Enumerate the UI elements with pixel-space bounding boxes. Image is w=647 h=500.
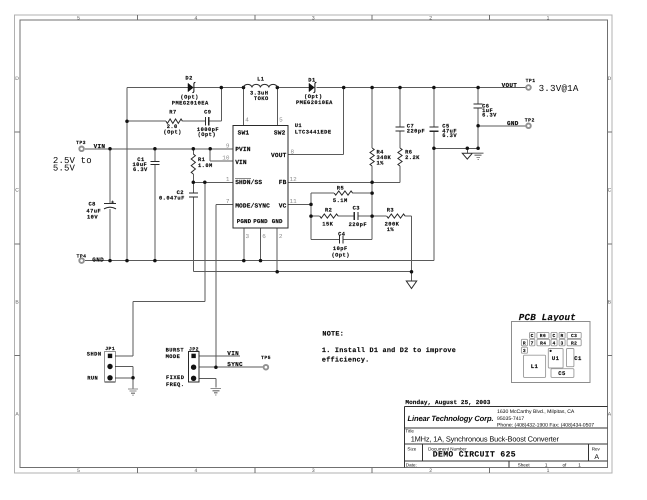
svg-text:SHDN: SHDN [87,352,102,358]
svg-text:U1: U1 [552,355,560,362]
svg-text:PGND: PGND [253,218,268,225]
svg-text:B: B [608,300,612,306]
svg-text:C3: C3 [353,205,360,211]
svg-text:FREQ.: FREQ. [166,382,184,388]
svg-text:C5: C5 [558,370,566,377]
svg-text:7: 7 [226,198,230,205]
svg-text:C8: C8 [89,202,96,208]
svg-text:VIN: VIN [94,143,106,150]
svg-text:TOKO: TOKO [254,96,269,102]
svg-text:Monday, August 25, 2003: Monday, August 25, 2003 [405,399,490,406]
svg-text:PMEG2010EA: PMEG2010EA [296,100,333,106]
svg-text:PVIN: PVIN [235,146,251,153]
svg-text:BURST: BURST [166,347,185,353]
svg-text:R5: R5 [337,186,344,192]
svg-text:GND: GND [92,256,104,263]
svg-text:D: D [15,76,19,82]
svg-text:DEMO CIRCUIT 625: DEMO CIRCUIT 625 [433,451,516,460]
svg-text:9: 9 [226,142,230,149]
svg-text:(Opt): (Opt) [180,94,198,100]
svg-text:VOUT: VOUT [502,82,518,89]
svg-text:220pF: 220pF [349,222,367,228]
svg-text:4: 4 [194,468,197,474]
svg-text:efficiency.: efficiency. [322,355,370,364]
svg-text:Phone: (408)432-1900 Fax: (408: Phone: (408)432-1900 Fax: (408)434-0507 [497,422,594,428]
svg-text:6.3V: 6.3V [482,112,497,118]
svg-text:D: D [608,76,612,82]
svg-text:C1: C1 [574,355,582,362]
svg-text:PGND: PGND [237,218,252,225]
svg-text:D2: D2 [185,75,192,81]
svg-text:A: A [608,411,612,417]
svg-text:C: C [15,188,19,194]
svg-text:1: 1 [578,463,581,468]
svg-text:(Opt): (Opt) [304,94,322,100]
svg-text:2: 2 [429,468,432,474]
svg-text:R6: R6 [540,333,546,339]
svg-text:10: 10 [222,155,230,162]
svg-text:MODE/SYNC: MODE/SYNC [235,202,270,209]
svg-text:SHDN/SS: SHDN/SS [235,179,262,186]
svg-text:NOTE:: NOTE: [322,330,344,338]
svg-text:3.3V@1A: 3.3V@1A [539,83,579,94]
svg-text:of: of [563,463,568,468]
svg-text:PMEG2010EA: PMEG2010EA [172,101,209,107]
svg-text:6.3V: 6.3V [442,133,457,139]
svg-text:C: C [531,333,534,339]
svg-text:1: 1 [545,463,548,468]
svg-text:C3: C3 [571,333,577,339]
svg-text:Size: Size [407,446,416,451]
svg-text:SW2: SW2 [274,130,286,137]
svg-text:R3: R3 [387,208,394,214]
svg-text:TP5: TP5 [261,355,271,361]
svg-text:11: 11 [290,198,298,205]
svg-text:2: 2 [429,15,432,21]
svg-text:C4: C4 [338,232,346,238]
svg-text:VIN: VIN [227,350,239,357]
svg-text:R7: R7 [169,109,176,115]
svg-text:1. Install D1 and D2 to improv: 1. Install D1 and D2 to improve [322,347,456,355]
svg-text:(Opt): (Opt) [332,253,350,259]
svg-text:TP2: TP2 [525,117,535,123]
svg-text:R: R [523,340,526,346]
svg-text:VIN: VIN [235,159,247,166]
svg-text:GND: GND [272,218,283,225]
svg-text:R4: R4 [540,340,546,346]
svg-text:1MHz, 1A, Synchronous Buck-Boo: 1MHz, 1A, Synchronous Buck-Boost Convert… [411,435,560,444]
svg-text:2: 2 [279,233,283,240]
svg-text:GND: GND [507,120,519,127]
svg-text:220pF: 220pF [407,128,425,134]
svg-text:3: 3 [523,348,526,354]
svg-text:10pF: 10pF [333,246,348,252]
svg-text:(Opt): (Opt) [198,132,216,138]
svg-text:A: A [15,411,19,417]
svg-text:Rev: Rev [592,446,601,451]
svg-text:R2: R2 [325,208,332,214]
svg-text:3: 3 [312,468,315,474]
svg-text:JP1: JP1 [105,346,115,352]
svg-text:C: C [552,333,555,339]
svg-text:3: 3 [312,15,315,21]
svg-text:SW1: SW1 [238,130,250,137]
svg-text:1%: 1% [377,160,385,166]
svg-text:47uF: 47uF [86,208,101,214]
svg-text:4: 4 [194,15,197,21]
svg-text:0.047uF: 0.047uF [159,195,185,201]
svg-text:1: 1 [226,176,230,183]
svg-text:C9: C9 [204,109,211,115]
svg-text:3: 3 [560,340,563,346]
svg-text:VOUT: VOUT [271,152,287,159]
svg-text:L1: L1 [257,76,264,82]
svg-text:1.0M: 1.0M [198,163,213,169]
svg-text:JP2: JP2 [189,347,199,353]
svg-text:1%: 1% [387,227,395,233]
svg-text:C: C [608,188,612,194]
svg-text:R2: R2 [571,340,577,346]
svg-text:5.5V: 5.5V [53,163,76,173]
svg-text:TP3: TP3 [76,140,86,146]
svg-text:R: R [560,333,563,339]
svg-text:VC: VC [279,202,287,209]
svg-text:Title: Title [405,429,414,434]
svg-text:6.3V: 6.3V [133,167,148,173]
svg-text:RUN: RUN [87,376,98,382]
svg-text:1630 McCarthy Blvd., Milpitas,: 1630 McCarthy Blvd., Milpitas, CA [497,409,575,415]
svg-text:D1: D1 [308,78,315,84]
svg-text:L1: L1 [531,363,539,370]
svg-text:3: 3 [246,233,250,240]
svg-text:A: A [594,454,599,461]
svg-text:B: B [15,300,19,306]
svg-text:Date:: Date: [406,463,417,468]
svg-text:10V: 10V [87,215,98,221]
svg-text:12: 12 [290,176,298,183]
svg-text:FIXED: FIXED [166,375,185,381]
svg-text:95035-7417: 95035-7417 [497,416,524,422]
svg-text:4: 4 [245,116,249,123]
svg-text:1: 1 [547,15,550,21]
svg-text:LTC3441EDE: LTC3441EDE [295,129,332,135]
svg-text:TP1: TP1 [526,78,536,84]
svg-text:U1: U1 [295,123,302,129]
svg-text:(Opt): (Opt) [163,130,181,136]
svg-text:7: 7 [531,340,534,346]
svg-text:MODE: MODE [166,354,181,360]
svg-text:6: 6 [262,233,266,240]
svg-text:TP4: TP4 [77,253,87,259]
svg-text:5: 5 [279,116,283,123]
svg-text:4: 4 [552,340,555,346]
svg-text:Sheet: Sheet [518,463,531,468]
svg-text:Linear Technology Corp.: Linear Technology Corp. [408,414,494,423]
svg-text:5.1M: 5.1M [333,198,348,204]
svg-text:5: 5 [77,15,80,21]
svg-text:1: 1 [547,468,550,474]
svg-text:SYNC: SYNC [227,361,243,368]
svg-text:5: 5 [77,468,80,474]
svg-text:15K: 15K [322,221,333,227]
svg-text:8: 8 [291,148,295,155]
svg-text:FB: FB [279,179,287,186]
svg-text:2.2K: 2.2K [405,155,420,161]
